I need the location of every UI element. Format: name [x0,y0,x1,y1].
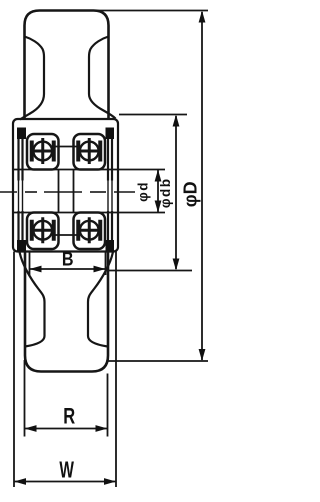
svg-text:W: W [59,457,74,483]
svg-text:R: R [63,404,75,429]
svg-text:φd: φd [135,181,150,202]
svg-text:φdb: φdb [158,177,173,208]
svg-text:B: B [62,248,74,270]
svg-text:φD: φD [181,181,201,207]
